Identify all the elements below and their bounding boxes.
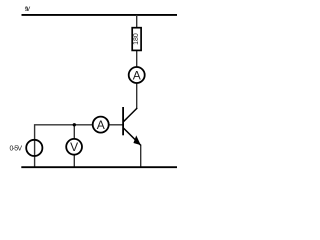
transistor Q1 collector lead [123, 108, 137, 122]
wire voltmeter to ground rail [73, 155, 75, 168]
ammeter A2 (base current) [93, 117, 109, 133]
svg-text:180: 180 [133, 33, 140, 45]
voltage source VS 0-5V [26, 140, 42, 156]
svg-text:A: A [133, 68, 141, 82]
resistor R1 value 180 [132, 28, 141, 51]
transistor Q1 (NPN) [123, 107, 141, 145]
transistor Q1 base bar [122, 107, 124, 135]
transistor Q1 emitter arrow [134, 137, 140, 144]
wire voltmeter tap vertical [73, 125, 75, 139]
wire ammeter A2 to base [109, 124, 123, 126]
voltmeter V1 [66, 139, 82, 155]
ground rail (bottom) [21, 166, 177, 168]
wire resistor R1 to ammeter A1 [136, 50, 138, 67]
ammeter A1 (collector current) [129, 67, 145, 83]
wire ammeter A1 to collector bend [136, 83, 138, 109]
wire 0-5V source column and base node horizontal [35, 125, 93, 167]
transistor Q1 emitter lead [123, 128, 140, 145]
wire emitter to ground rail [140, 145, 142, 167]
svg-text:9V: 9V [25, 6, 31, 13]
9V supply rail (top) [22, 14, 178, 16]
junction dot voltmeter tap [73, 123, 76, 126]
svg-text:A: A [97, 118, 105, 132]
wire top rail to resistor R1 [136, 15, 138, 28]
svg-text:0-5V: 0-5V [10, 146, 23, 153]
svg-text:V: V [70, 140, 78, 154]
